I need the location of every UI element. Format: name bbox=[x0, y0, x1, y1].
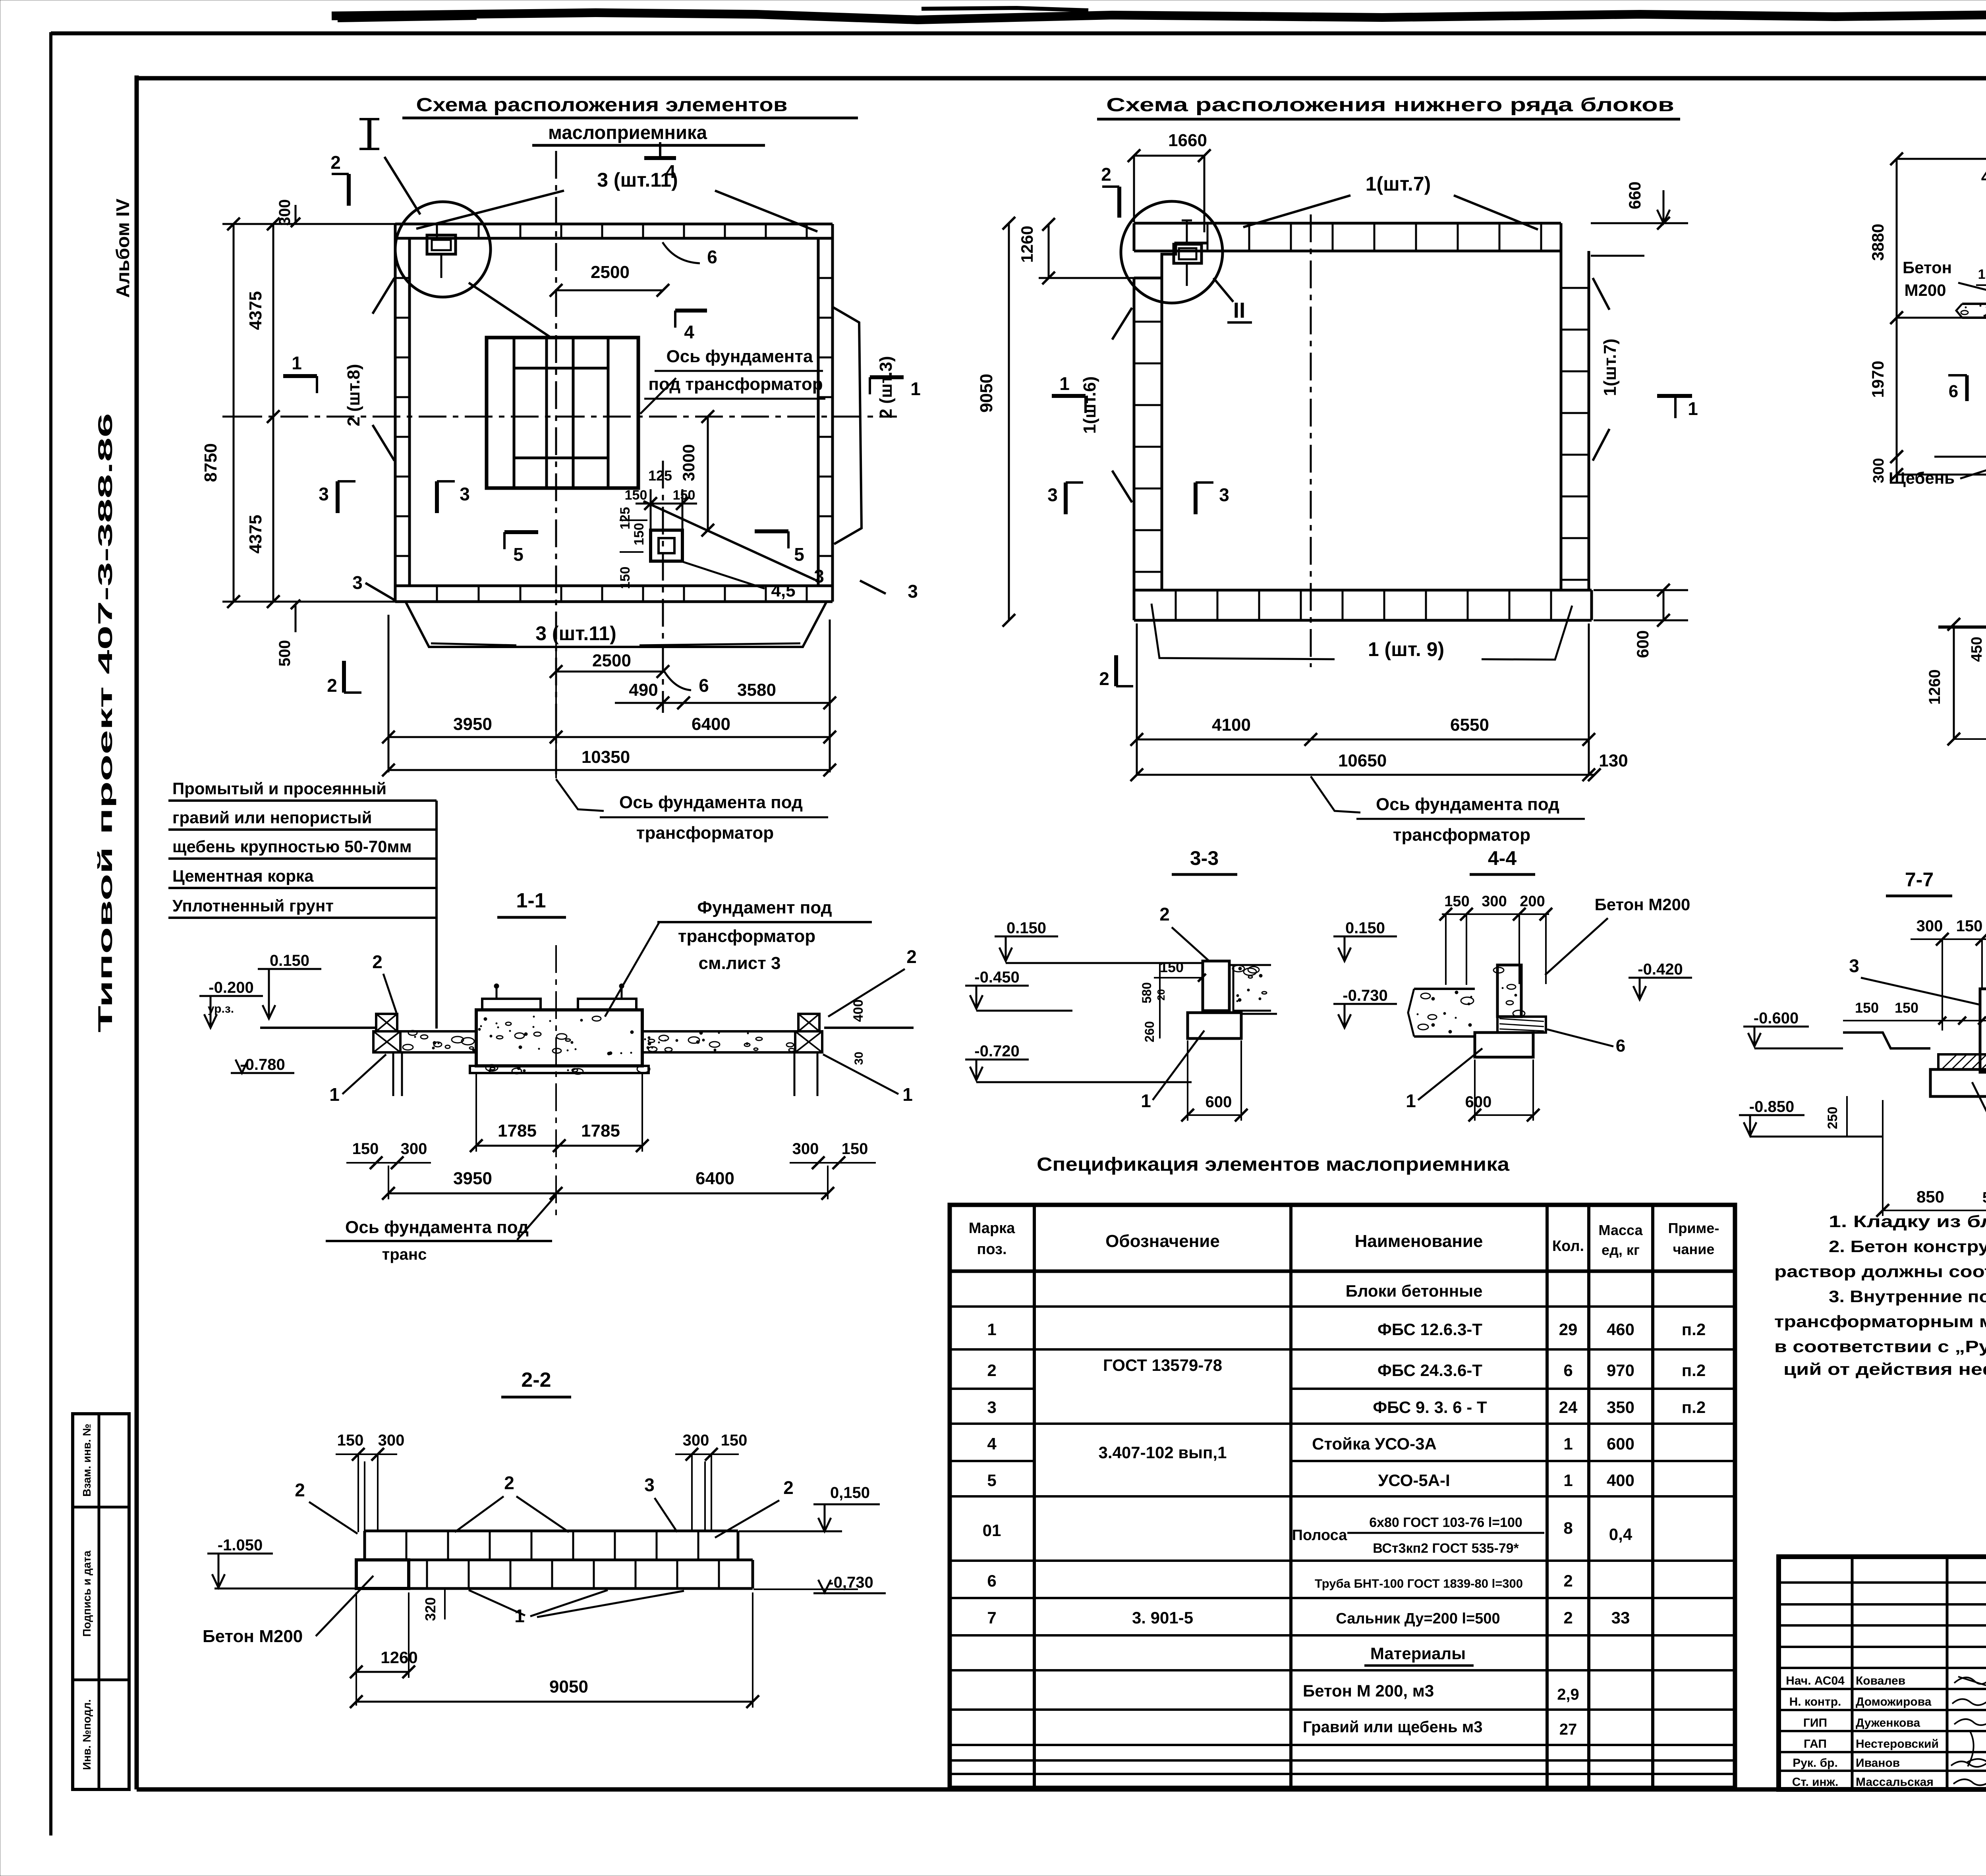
leader from detail circle to foundation bbox=[469, 283, 552, 338]
svg-text:Схема расположения элементов: Схема расположения элементов bbox=[416, 95, 788, 116]
svg-text:3: 3 bbox=[908, 581, 918, 602]
svg-text:2: 2 bbox=[504, 1473, 514, 1493]
svg-text:Нач. АС04: Нач. АС04 bbox=[1786, 1674, 1845, 1687]
plan view 2: top wall band of blocks bbox=[1134, 222, 1561, 225]
section 1-1: ground line left bbox=[260, 1027, 375, 1029]
detail circle II on corner bbox=[1121, 201, 1223, 303]
svg-text:Марка: Марка bbox=[969, 1220, 1015, 1237]
section 1-1: right wall blocks with cross bbox=[798, 1014, 819, 1031]
svg-text:2500: 2500 bbox=[591, 262, 630, 282]
scan artifact: dark band along top edge bbox=[332, 13, 1986, 20]
svg-text:300: 300 bbox=[378, 1432, 405, 1449]
section marks 1 left bbox=[1052, 394, 1086, 398]
svg-text:1: 1 bbox=[1059, 373, 1070, 394]
svg-text:трансформаторным маслом , пок: трансформаторным маслом , покрыть краско… bbox=[1774, 1312, 1986, 1331]
svg-text:Типовой проект 407-3-388.86: Типовой проект 407-3-388.86 bbox=[94, 413, 116, 1033]
foundation footing bbox=[470, 1066, 649, 1073]
svg-text:250: 250 bbox=[1825, 1107, 1840, 1129]
specification table outer frame bbox=[950, 1205, 1735, 1788]
svg-text:Нестеровский: Нестеровский bbox=[1856, 1737, 1939, 1751]
svg-text:33: 33 bbox=[1611, 1608, 1630, 1627]
svg-text:6: 6 bbox=[1616, 1036, 1625, 1056]
section 2-2: lower block row bbox=[356, 1559, 753, 1561]
svg-text:3 (шт.11): 3 (шт.11) bbox=[535, 622, 616, 645]
svg-text:1: 1 bbox=[987, 1320, 996, 1339]
svg-text:50: 50 bbox=[1982, 1189, 1986, 1206]
drain pit square detail bbox=[651, 530, 682, 561]
section marks 1 right bbox=[870, 375, 904, 379]
svg-text:1260: 1260 bbox=[381, 1648, 417, 1667]
svg-text:150: 150 bbox=[842, 1140, 868, 1158]
svg-text:Ось фундамента: Ось фундамента bbox=[667, 347, 813, 366]
svg-text:Ось фундамента под: Ось фундамента под bbox=[345, 1218, 529, 1237]
svg-text:-0.720: -0.720 bbox=[974, 1042, 1019, 1060]
svg-text:3580: 3580 bbox=[737, 680, 776, 700]
svg-text:Доможирова: Доможирова bbox=[1856, 1695, 1932, 1708]
svg-text:8: 8 bbox=[1563, 1519, 1573, 1537]
paper edge: left vertical line bbox=[49, 32, 52, 1835]
svg-text:1(шт.6): 1(шт.6) bbox=[1080, 376, 1099, 434]
svg-text:Бетон М200: Бетон М200 bbox=[203, 1627, 303, 1646]
svg-text:4: 4 bbox=[684, 322, 694, 342]
left stamp divider 2 bbox=[73, 1679, 129, 1681]
svg-text:150: 150 bbox=[618, 567, 633, 589]
svg-text:п.2: п.2 bbox=[1682, 1361, 1706, 1380]
svg-text:2: 2 bbox=[783, 1477, 794, 1498]
section 4-4: wall block bbox=[1497, 965, 1521, 1017]
svg-text:Приме-: Приме- bbox=[1668, 1220, 1719, 1236]
svg-text:600: 600 bbox=[1607, 1434, 1634, 1453]
svg-text:2: 2 bbox=[1563, 1571, 1573, 1590]
svg-text:580: 580 bbox=[1140, 982, 1154, 1003]
svg-text:Уплотненный грунт: Уплотненный грунт bbox=[172, 896, 334, 915]
paper edge: top horizontal line bbox=[51, 31, 1986, 35]
svg-text:транс: транс bbox=[382, 1246, 427, 1263]
svg-text:Труба БНТ-100 ГОСТ 1839-80 l=3: Труба БНТ-100 ГОСТ 1839-80 l=300 bbox=[1315, 1577, 1523, 1590]
svg-text:500: 500 bbox=[276, 640, 294, 667]
drawing frame: top border bbox=[137, 76, 1986, 81]
svg-text:4375: 4375 bbox=[246, 515, 265, 554]
svg-text:щебень крупностью 50-70мм: щебень крупностью 50-70мм bbox=[172, 837, 412, 856]
table column lines bbox=[1033, 1205, 1036, 1788]
svg-text:1: 1 bbox=[910, 378, 921, 399]
plan view 1: bottom apron trapezoid bbox=[406, 602, 827, 647]
svg-text:6: 6 bbox=[707, 247, 717, 267]
plan view 2: vertical centre axis bbox=[1310, 214, 1312, 667]
svg-text:6: 6 bbox=[1949, 382, 1958, 401]
svg-text:Наименование: Наименование bbox=[1355, 1231, 1483, 1251]
svg-text:Инв. №подл.: Инв. №подл. bbox=[81, 1699, 93, 1770]
svg-text:7: 7 bbox=[987, 1608, 996, 1627]
svg-text:300: 300 bbox=[683, 1432, 709, 1449]
section 3-3: concrete at right bbox=[1229, 964, 1271, 966]
svg-text:4100: 4100 bbox=[1212, 715, 1251, 735]
svg-text:3. 901-5: 3. 901-5 bbox=[1132, 1608, 1193, 1627]
svg-text:Масса: Масса bbox=[1599, 1222, 1643, 1238]
left stamp boxes outline bbox=[73, 1414, 129, 1789]
plan view 1: left wall band of blocks bbox=[394, 238, 397, 586]
svg-text:Стойка УСО-3А: Стойка УСО-3А bbox=[1312, 1434, 1437, 1453]
long diagonal leader to bottom-right corner bbox=[643, 501, 815, 580]
section 1-1: floor slab with concrete speckle bbox=[400, 1030, 476, 1033]
section marks 6 bbox=[1965, 375, 1969, 401]
svg-text:600: 600 bbox=[1465, 1093, 1492, 1111]
svg-text:300: 300 bbox=[792, 1140, 819, 1158]
svg-text:3: 3 bbox=[1047, 484, 1058, 505]
section mark 2 bottom-left bbox=[1114, 655, 1118, 686]
svg-text:УСО-5А-I: УСО-5А-I bbox=[1378, 1471, 1450, 1490]
svg-text:1(шт.7): 1(шт.7) bbox=[1600, 339, 1620, 396]
svg-text:4-4: 4-4 bbox=[1488, 847, 1517, 869]
leader to section mark I bbox=[384, 157, 420, 214]
detail circle I on corner block bbox=[395, 202, 491, 297]
plan view 1: right apron trapezoid bbox=[833, 307, 862, 544]
plan view 1: transformer foundation outline bbox=[487, 338, 638, 488]
svg-text:1-1: 1-1 bbox=[516, 889, 546, 912]
svg-text:200: 200 bbox=[1520, 893, 1545, 910]
section mark 2 top-left bbox=[1117, 187, 1121, 218]
svg-text:2: 2 bbox=[987, 1361, 996, 1380]
svg-text:раствор должны соответствовать: раствор должны соответствовать по водони… bbox=[1774, 1262, 1986, 1281]
svg-text:маслоприемника: маслоприемника bbox=[548, 122, 707, 143]
svg-text:п.2: п.2 bbox=[1682, 1320, 1706, 1339]
svg-text:ГОСТ 13579-78: ГОСТ 13579-78 bbox=[1103, 1356, 1222, 1374]
svg-text:400: 400 bbox=[851, 1000, 866, 1022]
svg-text:7-7: 7-7 bbox=[1905, 869, 1934, 891]
svg-text:Схема расположения нижнего ряд: Схема расположения нижнего ряда блоков bbox=[1106, 95, 1674, 116]
svg-text:6400: 6400 bbox=[692, 714, 730, 734]
left stamp divider 1 bbox=[73, 1506, 129, 1509]
section 1-1: centre axis bbox=[555, 945, 557, 1215]
drawing frame: bottom border bbox=[137, 1787, 1986, 1792]
svg-text:3-3: 3-3 bbox=[1190, 847, 1219, 869]
svg-text:2500: 2500 bbox=[592, 651, 631, 670]
svg-text:0.150: 0.150 bbox=[270, 952, 309, 969]
plan view 1: drain axis bbox=[662, 461, 664, 713]
svg-text:460: 460 bbox=[1607, 1320, 1634, 1339]
svg-text:6: 6 bbox=[1563, 1361, 1573, 1380]
plan view 2: corner step detail bbox=[1162, 243, 1207, 278]
svg-text:150: 150 bbox=[632, 523, 647, 546]
svg-text:-0.600: -0.600 bbox=[1754, 1009, 1799, 1027]
svg-text:10350: 10350 bbox=[582, 747, 630, 767]
plan view 1: right wall band of blocks bbox=[817, 238, 820, 586]
svg-text:1260: 1260 bbox=[1018, 226, 1036, 262]
svg-text:150: 150 bbox=[1160, 959, 1184, 975]
svg-text:см.лист 3: см.лист 3 bbox=[699, 953, 781, 973]
svg-text:0,150: 0,150 bbox=[830, 1484, 870, 1502]
svg-text:М200: М200 bbox=[1904, 281, 1946, 299]
svg-text:3: 3 bbox=[1849, 955, 1859, 976]
svg-text:3000: 3000 bbox=[679, 444, 698, 481]
svg-text:29: 29 bbox=[1559, 1320, 1578, 1339]
svg-text:3: 3 bbox=[1219, 484, 1229, 505]
svg-text:6х80 ГОСТ 103-76 l=100: 6х80 ГОСТ 103-76 l=100 bbox=[1369, 1515, 1522, 1530]
axis leader text below plan 2 bbox=[1311, 776, 1360, 813]
svg-text:6400: 6400 bbox=[695, 1169, 734, 1188]
leader to axis label bbox=[640, 378, 676, 414]
svg-text:Дуженкова: Дуженкова bbox=[1856, 1716, 1920, 1729]
svg-text:2 (шт.3): 2 (шт.3) bbox=[876, 356, 896, 418]
signature grid upper rows bbox=[1779, 1581, 1986, 1584]
section mark 3 centre bbox=[1194, 483, 1198, 514]
section mark 4 mid bbox=[675, 309, 707, 313]
svg-text:ФБС 9. 3. 6 - Т: ФБС 9. 3. 6 - Т bbox=[1373, 1398, 1487, 1417]
section 5-5: ground slab with concrete texture bbox=[1962, 303, 1986, 305]
svg-text:1260: 1260 bbox=[1926, 670, 1943, 705]
svg-text:01: 01 bbox=[983, 1521, 1001, 1540]
svg-text:1: 1 bbox=[1563, 1471, 1573, 1490]
svg-text:п.2: п.2 bbox=[1682, 1398, 1706, 1417]
svg-text:3950: 3950 bbox=[453, 714, 492, 734]
svg-text:Бетон М 200, м3: Бетон М 200, м3 bbox=[1303, 1681, 1434, 1700]
svg-text:1 (шт. 9): 1 (шт. 9) bbox=[1368, 638, 1444, 660]
section 4-4: slab at left with speckle bbox=[1414, 988, 1475, 990]
leader and label II bbox=[1213, 278, 1233, 302]
svg-text:Рук. бр.: Рук. бр. bbox=[1793, 1756, 1838, 1770]
svg-text:Ковалев: Ковалев bbox=[1856, 1674, 1905, 1687]
section 1-1: transformer foundation block bbox=[476, 1010, 642, 1066]
svg-text:2: 2 bbox=[1101, 164, 1111, 185]
svg-text:трансформатор: трансформатор bbox=[1393, 825, 1530, 845]
svg-text:ВСт3кп2 ГОСТ 535-79*: ВСт3кп2 ГОСТ 535-79* bbox=[1373, 1541, 1519, 1556]
svg-text:1970: 1970 bbox=[1868, 361, 1887, 398]
svg-text:2: 2 bbox=[906, 946, 917, 967]
svg-text:300: 300 bbox=[1916, 917, 1943, 935]
svg-text:2 (шт.8): 2 (шт.8) bbox=[344, 364, 363, 426]
section 7-7: wall and step profile bbox=[1980, 989, 1986, 1072]
svg-text:3. Внутренние поверхности ст: 3. Внутренние поверхности стен и днища, … bbox=[1829, 1287, 1986, 1306]
detail II: wall band top edge bbox=[1938, 625, 1986, 629]
svg-text:5: 5 bbox=[513, 544, 524, 565]
title block outer frame bbox=[1779, 1557, 1986, 1789]
svg-text:0,4: 0,4 bbox=[1609, 1525, 1632, 1544]
corner stub block bbox=[1174, 244, 1202, 263]
svg-text:Фундамент под: Фундамент под bbox=[697, 898, 832, 917]
svg-text:10650: 10650 bbox=[1338, 751, 1387, 770]
svg-text:Взам. инв. №: Взам. инв. № bbox=[81, 1424, 93, 1497]
svg-text:1: 1 bbox=[1563, 1434, 1573, 1453]
section 1-1: ground line right bbox=[824, 1027, 914, 1029]
section 7-7: footing bbox=[1930, 1069, 1986, 1096]
svg-text:8750: 8750 bbox=[201, 443, 220, 482]
signature grid name rows bbox=[1779, 1688, 1986, 1690]
svg-text:4: 4 bbox=[987, 1434, 997, 1453]
svg-text:4: 4 bbox=[1981, 167, 1986, 187]
section 3-3: footing block bbox=[1188, 1013, 1241, 1038]
svg-text:ур.з.: ур.з. bbox=[208, 1002, 234, 1015]
svg-text:30: 30 bbox=[852, 1052, 865, 1065]
section 4-4: pad with hatch bbox=[1497, 1017, 1546, 1033]
svg-text:660: 660 bbox=[1625, 181, 1644, 209]
svg-text:2,9: 2,9 bbox=[1557, 1686, 1579, 1703]
svg-text:-0.450: -0.450 bbox=[974, 969, 1019, 986]
svg-text:27: 27 bbox=[1559, 1721, 1577, 1738]
section marks 1 left bbox=[283, 374, 317, 378]
section mark 3 left bbox=[336, 481, 340, 513]
svg-text:1(шт.7): 1(шт.7) bbox=[1366, 173, 1431, 195]
svg-text:трансформатор: трансформатор bbox=[678, 926, 815, 946]
svg-text:6550: 6550 bbox=[1450, 715, 1489, 735]
svg-text:490: 490 bbox=[629, 680, 658, 700]
svg-text:Промытый и просеянный: Промытый и просеянный bbox=[172, 779, 386, 798]
svg-text:Альбом IV: Альбом IV bbox=[112, 199, 133, 298]
svg-text:под трансформатор: под трансформатор bbox=[648, 374, 823, 394]
svg-text:24: 24 bbox=[1559, 1398, 1578, 1417]
section 2-2: upper block row bbox=[365, 1530, 738, 1532]
svg-text:300: 300 bbox=[401, 1140, 427, 1158]
svg-text:Цементная корка: Цементная корка bbox=[172, 867, 314, 885]
svg-text:Ось фундамента под: Ось фундамента под bbox=[1376, 795, 1559, 814]
svg-text:3.407-102 вып,1: 3.407-102 вып,1 bbox=[1099, 1443, 1227, 1462]
svg-text:II: II bbox=[1233, 298, 1246, 322]
table row lines bbox=[950, 1305, 1735, 1308]
section 4-4: footing bbox=[1475, 1033, 1533, 1057]
svg-text:1: 1 bbox=[292, 353, 302, 373]
svg-text:350: 350 bbox=[1607, 1398, 1634, 1417]
plan view 2: bottom wall band of blocks bbox=[1134, 589, 1592, 592]
section mark 5 right bbox=[755, 529, 788, 533]
svg-text:3: 3 bbox=[352, 572, 363, 593]
plan view 1: bottom wall band of blocks bbox=[395, 585, 833, 587]
section marks 1 right bbox=[1657, 394, 1692, 398]
svg-text:Ст. инж.: Ст. инж. bbox=[1792, 1776, 1839, 1789]
svg-text:3880: 3880 bbox=[1868, 224, 1887, 261]
svg-text:ГИП: ГИП bbox=[1803, 1716, 1827, 1729]
svg-text:-0.730: -0.730 bbox=[1343, 987, 1387, 1004]
svg-text:4375: 4375 bbox=[246, 291, 265, 330]
section mark 4 top bbox=[644, 156, 676, 160]
signature grid verticals bbox=[1851, 1557, 1854, 1789]
svg-text:0.150: 0.150 bbox=[1007, 919, 1046, 937]
svg-text:600: 600 bbox=[1206, 1093, 1232, 1111]
svg-text:150: 150 bbox=[337, 1432, 364, 1449]
svg-text:1: 1 bbox=[514, 1606, 525, 1626]
svg-text:Полоса: Полоса bbox=[1292, 1527, 1348, 1544]
svg-text:9050: 9050 bbox=[549, 1677, 588, 1697]
svg-text:600: 600 bbox=[1633, 630, 1652, 658]
svg-text:300: 300 bbox=[276, 199, 294, 226]
section mark 2 bottom bbox=[342, 661, 346, 693]
svg-text:-0.200: -0.200 bbox=[209, 979, 253, 996]
svg-text:3: 3 bbox=[460, 484, 470, 504]
svg-text:1: 1 bbox=[1406, 1090, 1416, 1111]
svg-text:поз.: поз. bbox=[977, 1241, 1007, 1258]
foundation grid lines bbox=[513, 338, 516, 488]
svg-text:3950: 3950 bbox=[453, 1169, 492, 1188]
svg-text:Спецификация элементов масло: Спецификация элементов маслоприемника bbox=[1037, 1154, 1509, 1175]
section 2-2: concrete end block bbox=[356, 1560, 409, 1588]
svg-text:2: 2 bbox=[295, 1480, 305, 1500]
corner drain box detail bbox=[427, 235, 456, 254]
svg-text:0.150: 0.150 bbox=[1345, 919, 1385, 937]
svg-text:Массальская: Массальская bbox=[1856, 1776, 1934, 1789]
svg-text:Сальник Ду=200 l=500: Сальник Ду=200 l=500 bbox=[1336, 1610, 1500, 1627]
material callout collector line bbox=[435, 801, 438, 1029]
svg-text:-0.850: -0.850 bbox=[1749, 1098, 1794, 1116]
svg-text:ций от действия нефтепродук: ций от действия нефтепродуктов ” (табл. … bbox=[1783, 1360, 1986, 1378]
svg-text:Бетон М200: Бетон М200 bbox=[1595, 895, 1690, 914]
svg-text:320: 320 bbox=[422, 1597, 439, 1621]
plan view 1: horizontal centre axis bbox=[234, 416, 897, 418]
svg-text:260: 260 bbox=[1142, 1021, 1157, 1042]
plan view 1: top wall band of blocks bbox=[395, 223, 833, 226]
svg-text:125: 125 bbox=[618, 507, 633, 530]
svg-text:2. Бетон конструкций фундамент: 2. Бетон конструкций фундамента под тран… bbox=[1829, 1237, 1986, 1256]
svg-text:450: 450 bbox=[1969, 637, 1985, 662]
svg-text:3: 3 bbox=[987, 1398, 996, 1417]
section 7-7: pad with hatch bbox=[1938, 1054, 1986, 1069]
svg-text:850: 850 bbox=[1916, 1187, 1944, 1206]
signature squiggles bbox=[1954, 1676, 1986, 1685]
svg-text:Гравий или щебень м3: Гравий или щебень м3 bbox=[1303, 1718, 1483, 1736]
svg-text:1785: 1785 bbox=[498, 1121, 537, 1141]
svg-text:ФБС 12.6.3-Т: ФБС 12.6.3-Т bbox=[1377, 1320, 1482, 1339]
section mark I above plan bbox=[367, 119, 371, 149]
svg-text:5: 5 bbox=[794, 544, 804, 565]
svg-text:150: 150 bbox=[1895, 1000, 1918, 1016]
svg-text:20: 20 bbox=[1155, 989, 1167, 1001]
svg-text:130: 130 bbox=[1599, 751, 1628, 770]
svg-text:Иванов: Иванов bbox=[1856, 1756, 1900, 1770]
svg-text:Ось фундамента под: Ось фундамента под bbox=[619, 793, 803, 812]
svg-text:3: 3 bbox=[644, 1475, 655, 1495]
svg-text:2: 2 bbox=[1159, 904, 1170, 924]
svg-text:Щебень: Щебень bbox=[1889, 469, 1955, 487]
svg-text:Кол.: Кол. bbox=[1552, 1238, 1584, 1255]
section mark 3 centre bbox=[435, 481, 439, 513]
svg-text:-1.050: -1.050 bbox=[218, 1536, 263, 1554]
svg-text:400: 400 bbox=[1607, 1471, 1634, 1490]
svg-text:150: 150 bbox=[721, 1432, 748, 1449]
section mark 5 left bbox=[504, 530, 538, 534]
dim extension lines left of plan bbox=[222, 223, 397, 225]
svg-text:2: 2 bbox=[1099, 668, 1109, 689]
svg-text:1. Кладку из блоков выполнять: 1. Кладку из блоков выполнять на цементн… bbox=[1829, 1212, 1986, 1231]
svg-text:1: 1 bbox=[329, 1084, 340, 1105]
drawing frame: left border bbox=[135, 75, 139, 1789]
svg-text:чание: чание bbox=[1673, 1241, 1715, 1257]
svg-text:-0.420: -0.420 bbox=[1638, 961, 1683, 978]
svg-text:1: 1 bbox=[1141, 1090, 1151, 1111]
left stamp column divider bbox=[98, 1414, 100, 1789]
svg-text:гравий или непористый: гравий или непористый bbox=[172, 808, 372, 827]
svg-text:2: 2 bbox=[372, 952, 383, 972]
section 1-1: pile lines under walls bbox=[392, 1052, 394, 1096]
svg-text:1: 1 bbox=[902, 1084, 913, 1105]
section mark 2 top bbox=[347, 174, 351, 206]
plan view 2: right wall band of blocks bbox=[1560, 251, 1563, 590]
svg-text:ед, кг: ед, кг bbox=[1602, 1242, 1640, 1258]
svg-text:3: 3 bbox=[319, 484, 329, 504]
section mark 3 left bbox=[1064, 483, 1068, 514]
svg-text:Н. контр.: Н. контр. bbox=[1789, 1695, 1841, 1708]
plan view 2: left wall band of blocks bbox=[1133, 278, 1136, 590]
svg-text:125: 125 bbox=[648, 467, 672, 484]
svg-text:4,5: 4,5 bbox=[771, 581, 795, 600]
svg-text:трансформатор: трансформатор bbox=[636, 823, 774, 843]
svg-text:Материалы: Материалы bbox=[1370, 1644, 1466, 1663]
svg-text:3 (шт.11): 3 (шт.11) bbox=[597, 169, 678, 191]
svg-text:6: 6 bbox=[699, 675, 709, 696]
svg-text:2: 2 bbox=[327, 675, 337, 696]
svg-text:150: 150 bbox=[1444, 893, 1469, 910]
svg-text:2: 2 bbox=[1563, 1608, 1573, 1627]
svg-text:2: 2 bbox=[330, 152, 341, 173]
svg-text:1660: 1660 bbox=[1168, 131, 1207, 150]
svg-text:150: 150 bbox=[1978, 267, 1986, 282]
svg-text:Блоки бетонные: Блоки бетонные bbox=[1346, 1282, 1483, 1300]
